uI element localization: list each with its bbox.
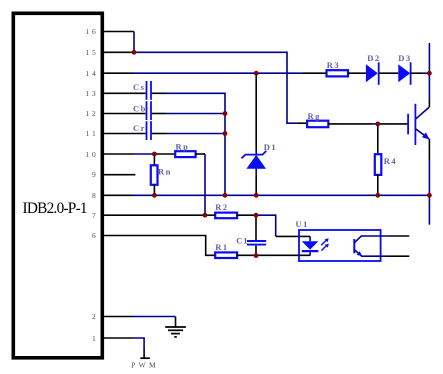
svg-text:Rg: Rg bbox=[308, 111, 321, 121]
svg-text:Cr: Cr bbox=[133, 123, 146, 133]
svg-text:10: 10 bbox=[85, 150, 98, 159]
svg-text:IDB2.0-P-1: IDB2.0-P-1 bbox=[23, 200, 87, 217]
svg-text:D2: D2 bbox=[367, 53, 380, 63]
svg-text:2: 2 bbox=[92, 312, 99, 321]
svg-text:1: 1 bbox=[92, 334, 99, 343]
svg-text:R1: R1 bbox=[215, 242, 228, 252]
svg-text:8: 8 bbox=[92, 191, 99, 200]
svg-text:13: 13 bbox=[85, 89, 98, 98]
svg-text:9: 9 bbox=[92, 170, 99, 179]
svg-text:PWM: PWM bbox=[131, 361, 159, 370]
svg-text:15: 15 bbox=[85, 48, 98, 57]
svg-text:11: 11 bbox=[86, 129, 99, 138]
svg-text:C1: C1 bbox=[236, 235, 248, 245]
svg-text:12: 12 bbox=[85, 109, 98, 118]
svg-text:7: 7 bbox=[92, 211, 99, 220]
svg-text:Cs: Cs bbox=[133, 82, 145, 92]
svg-text:6: 6 bbox=[92, 231, 99, 240]
svg-text:Rn: Rn bbox=[158, 166, 172, 176]
svg-text:Rp: Rp bbox=[176, 141, 190, 151]
svg-text:D1: D1 bbox=[264, 142, 277, 152]
svg-text:Cb: Cb bbox=[133, 104, 147, 114]
svg-text:14: 14 bbox=[85, 69, 98, 78]
svg-text:U1: U1 bbox=[296, 219, 309, 229]
svg-text:16: 16 bbox=[85, 27, 98, 36]
svg-text:R2: R2 bbox=[215, 202, 228, 212]
svg-text:R4: R4 bbox=[384, 156, 397, 166]
svg-text:R3: R3 bbox=[327, 60, 340, 70]
svg-text:D3: D3 bbox=[398, 53, 411, 63]
